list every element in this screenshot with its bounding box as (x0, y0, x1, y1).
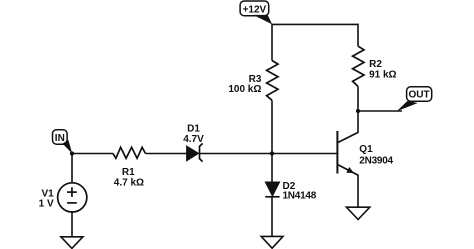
wire D2 to ground (271, 197, 273, 237)
diode D2 (265, 181, 316, 202)
svg-text:IN: IN (55, 133, 65, 144)
net label OUT (397, 87, 432, 111)
node junction IN/V1 (70, 151, 74, 155)
svg-text:D1: D1 (187, 124, 200, 135)
wire top rail horizontal (272, 23, 358, 25)
ground under Q1 (346, 207, 369, 219)
svg-text:2N3904: 2N3904 (359, 155, 393, 166)
wire V1 to ground (71, 212, 73, 237)
resistor R3 (228, 61, 278, 101)
wire R2 bottom lead to collector (357, 86, 359, 132)
wire emitter to ground (357, 175, 359, 208)
net label +12V (240, 1, 272, 24)
svg-text:1 V: 1 V (39, 199, 54, 210)
ground under D2 (261, 236, 283, 248)
wire OUT tap (358, 110, 402, 112)
resistor R1 (113, 147, 146, 188)
zener diode D1 (183, 124, 204, 162)
svg-text:4.7 kΩ: 4.7 kΩ (114, 177, 144, 188)
voltage source V1 (39, 154, 87, 212)
wire R3 bottom lead through node to D2 (271, 100, 273, 182)
wire R2 top lead (357, 24, 359, 47)
net label IN (53, 130, 73, 154)
svg-text:OUT: OUT (409, 90, 430, 101)
node junction OUT tap (356, 109, 360, 113)
wire D1 to node (200, 153, 273, 155)
svg-text:Q1: Q1 (359, 144, 373, 155)
wire R3 top lead (271, 24, 273, 61)
wire node to Q1 base (272, 153, 337, 155)
svg-text:1N4148: 1N4148 (283, 191, 317, 202)
ground under V1 (61, 237, 83, 249)
svg-text:100 kΩ: 100 kΩ (228, 84, 261, 95)
node junction bus/D2 (270, 151, 274, 155)
resistor R2 (353, 46, 397, 86)
transistor Q1 (337, 131, 393, 175)
svg-text:91 kΩ: 91 kΩ (369, 69, 396, 80)
svg-text:4.7V: 4.7V (183, 134, 204, 145)
wire bus IN to R1 (72, 153, 113, 155)
svg-text:R3: R3 (249, 74, 262, 85)
svg-text:+12V: +12V (243, 5, 267, 16)
wire R1 to D1 (146, 153, 187, 155)
